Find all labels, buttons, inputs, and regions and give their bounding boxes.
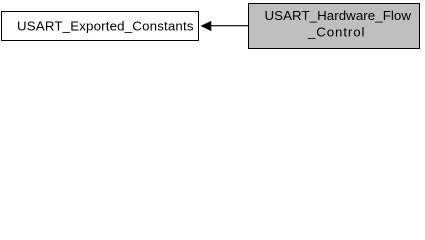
svg-text:_Control: _Control [307, 25, 365, 40]
node USART_Hardware_Flow_Control [249, 4, 420, 49]
node USART_Exported_Constants [2, 12, 199, 41]
arrowhead [201, 21, 211, 30]
svg-text:USART_Exported_Constants: USART_Exported_Constants [17, 18, 194, 33]
wire [210, 25, 249, 27]
svg-text:USART_Hardware_Flow: USART_Hardware_Flow [265, 8, 412, 23]
